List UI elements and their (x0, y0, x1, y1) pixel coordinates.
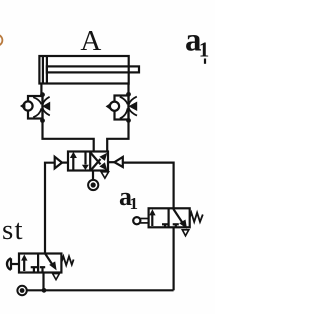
exhaust triangle (182, 230, 189, 236)
blocked port T right box (40, 266, 45, 268)
flow control valve V1 (left) (20, 92, 50, 123)
junction (42, 288, 47, 293)
wire cylinder right port (127, 84, 129, 95)
exhaust below valve (101, 172, 109, 178)
valve 4/2 impulse valve body (68, 152, 108, 171)
wire right pilot to a1 valve (123, 163, 174, 209)
wire V2 to valve port 2 (107, 120, 128, 151)
svg-text:A: A (80, 25, 101, 57)
cylinder A body (39, 56, 128, 84)
cylinder piston (42, 57, 44, 83)
up arrow (23, 260, 25, 271)
valve supply stub (92, 171, 94, 180)
diagonal exhaust path (45, 254, 53, 266)
blocked port T left box (162, 223, 168, 225)
arrows left box (72, 157, 74, 170)
circled number fragment (left edge) (0, 35, 2, 46)
wire V1 to valve port 4 (43, 121, 94, 152)
spring (61, 256, 73, 265)
wire st valve to supply line (42, 273, 44, 291)
pilot triangle right (114, 157, 122, 167)
tick below a1 (204, 59, 206, 64)
roller (133, 217, 140, 224)
svg-text:1: 1 (130, 194, 139, 213)
wire left pilot to st valve (45, 163, 55, 253)
valve a1 3/2 roller valve (133, 208, 203, 236)
up arrow (151, 215, 153, 226)
svg-text:st: st (2, 214, 24, 246)
compressed air source (valve) (88, 180, 98, 190)
pilot triangle left (55, 157, 62, 169)
push button (7, 258, 11, 270)
wire a1 valve to supply line (173, 227, 175, 290)
flow control valve V2 (right) (106, 92, 138, 123)
wire cylinder left port (40, 84, 42, 95)
blocked port T right box (173, 223, 179, 225)
valve st 3/2 push button valve (7, 254, 74, 280)
compressed air source (bottom) (17, 286, 26, 295)
spring (190, 213, 203, 222)
exhaust triangle (53, 274, 60, 280)
supply line bottom (27, 289, 173, 291)
diagonal exhaust path (173, 209, 183, 224)
blocked port T left box (31, 266, 37, 268)
cylinder piston rod (47, 66, 139, 72)
svg-text:1: 1 (199, 38, 210, 62)
crossed arrows right box (91, 159, 101, 170)
